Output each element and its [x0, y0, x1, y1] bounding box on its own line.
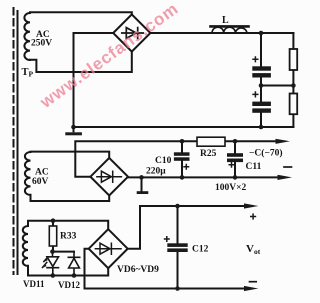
arrowhead middle minus rail — [276, 139, 291, 144]
junction dot C12 bottom — [175, 286, 180, 291]
winding 3 — [23, 226, 28, 266]
capacitor leads top-right stack — [260, 33, 262, 127]
svg-text:250V: 250V — [31, 39, 52, 49]
svg-text:220μ: 220μ — [146, 167, 166, 177]
ground 1 bar — [65, 132, 82, 135]
winding AC 250V — [24, 13, 30, 60]
junction dot C12 top — [175, 204, 180, 209]
plus sign Ca — [252, 56, 258, 62]
minus sign bottom output — [250, 281, 257, 283]
wire middle plus rail — [128, 176, 277, 178]
svg-text:C12: C12 — [192, 245, 209, 255]
wire bridge1 left vertex to DC minus — [74, 32, 114, 34]
resistor R33 — [49, 226, 56, 246]
bridge rectifier 3 VD6~VD9 — [89, 229, 128, 268]
inductor L — [212, 27, 247, 33]
svg-text:VD6~VD9: VD6~VD9 — [117, 265, 159, 275]
wire winding1 bottom to bridge1 — [30, 52, 132, 72]
junction dot cap stack bottom — [259, 125, 264, 130]
svg-text:R25: R25 — [200, 149, 217, 159]
junction dot cap stack top — [259, 31, 264, 36]
junction dot R33 top — [51, 218, 56, 223]
wire middle minus rail vertical — [75, 141, 276, 176]
capacitor C12 plates — [167, 243, 187, 247]
transformer core solid line — [17, 11, 19, 274]
photo arrow heads VD11 — [43, 258, 48, 262]
svg-text:AC: AC — [35, 168, 49, 178]
diode inside bridge 2 — [97, 171, 122, 182]
wire DC minus vertical — [73, 33, 75, 127]
capacitor Cb plates — [252, 102, 271, 106]
junction dot VD12 bottom — [72, 273, 77, 278]
svg-text:L: L — [222, 15, 229, 26]
plus sign C11 — [229, 162, 235, 168]
junction dot C11 top — [233, 139, 238, 144]
minus sign middle output — [284, 166, 292, 168]
junction dot ground2 — [139, 175, 144, 180]
diode inside bridge 3 — [95, 243, 121, 254]
winding AC 60V — [25, 152, 31, 195]
wire winding2 top lead — [31, 152, 110, 158]
diode VD12 — [68, 252, 79, 276]
ground 2 stub — [141, 177, 143, 191]
svg-text:VD11: VD11 — [23, 279, 45, 289]
svg-text:−C(−70): −C(−70) — [249, 148, 283, 159]
resistor R2 top-right lower — [290, 94, 298, 115]
arrowhead bottom minus rail — [244, 286, 259, 291]
inductor L core bar — [211, 25, 249, 28]
wire winding3 top lead — [28, 221, 108, 230]
svg-text:100V×2: 100V×2 — [215, 183, 247, 193]
diode inside bridge 1 — [122, 28, 144, 39]
arrowhead middle plus rail — [278, 175, 293, 180]
junction dot resistor mid — [291, 83, 296, 88]
capacitor C10 plates — [174, 152, 190, 156]
ground 2 bar — [137, 191, 149, 194]
bridge rectifier 2 — [90, 158, 128, 196]
wire bridge3 left vertex to bottom rail — [85, 249, 247, 289]
svg-text:R33: R33 — [60, 232, 77, 242]
wire bridge1 right vertex to top rail — [150, 32, 293, 34]
plus sign C12 — [164, 236, 170, 242]
plus sign Cb — [252, 91, 258, 97]
plus sign bottom output — [250, 213, 256, 219]
junction dot cap stack mid — [259, 83, 264, 88]
diode VD11 — [47, 252, 59, 276]
svg-text:Vot: Vot — [246, 243, 261, 256]
capacitor Ca plates — [252, 66, 271, 70]
wire right branch down — [292, 33, 294, 127]
plus sign C10 — [183, 164, 189, 170]
svg-text:www.elecfans.com: www.elecfans.com — [36, 0, 182, 112]
resistor R25 — [197, 137, 225, 146]
arrowhead bottom plus rail — [244, 203, 259, 208]
wire winding3 bottom lead — [28, 266, 108, 276]
wire winding1 top to bridge1 — [30, 12, 132, 14]
junction dot R33 bottom node — [50, 249, 55, 254]
junction dot VD11 bottom — [51, 273, 56, 278]
capacitor C11 plates — [227, 153, 243, 157]
wire capacitor stack mid link — [261, 85, 293, 87]
wire bridge3 right vertex to top rail — [128, 206, 246, 249]
junction dot DC minus ground — [71, 125, 76, 130]
wire top section bottom rail — [74, 126, 294, 128]
bridge rectifier 1 — [113, 14, 150, 51]
svg-text:C10: C10 — [155, 156, 172, 166]
resistor R33 leads — [52, 221, 54, 252]
junction dot C10 bottom — [180, 175, 185, 180]
wire R33 node to VD12 — [53, 251, 75, 253]
resistor R1 top-right upper — [290, 49, 298, 70]
junction dot C11 bottom — [233, 175, 238, 180]
photo arrows VD11 — [43, 257, 48, 267]
capacitor C10 leads — [181, 141, 183, 177]
svg-text:TP: TP — [22, 67, 34, 79]
capacitor C11 leads — [234, 141, 236, 177]
junction dot C10 top — [180, 139, 185, 144]
svg-text:VD12: VD12 — [58, 280, 80, 290]
transformer core dashed line — [13, 8, 15, 274]
wire winding2 bottom lead — [31, 195, 110, 201]
svg-text:C11: C11 — [246, 162, 262, 172]
svg-text:60V: 60V — [32, 177, 49, 187]
capacitor C12 leads — [177, 206, 179, 289]
